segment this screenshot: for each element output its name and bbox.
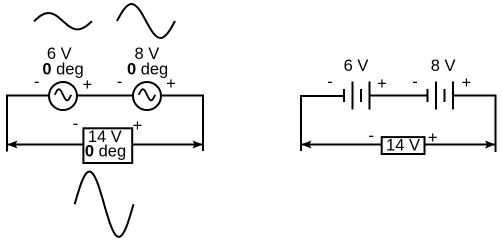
svg-text:+: + (462, 74, 472, 92)
svg-text:+: + (166, 75, 176, 93)
svg-text:-: - (412, 73, 418, 91)
svg-text:0 deg: 0 deg (85, 143, 126, 161)
svg-text:+: + (428, 129, 438, 147)
svg-text:+: + (133, 117, 143, 135)
svg-text:0 deg: 0 deg (127, 60, 168, 78)
svg-text:8 V: 8 V (431, 57, 456, 75)
svg-text:+: + (377, 75, 387, 93)
svg-text:+: + (82, 76, 92, 94)
svg-text:-: - (34, 73, 40, 91)
svg-text:-: - (369, 127, 375, 145)
svg-text:14 V: 14 V (386, 137, 420, 155)
svg-text:-: - (73, 115, 79, 133)
svg-text:-: - (327, 73, 333, 91)
svg-text:6 V: 6 V (344, 57, 369, 75)
svg-text:-: - (117, 73, 123, 91)
svg-text:0 deg: 0 deg (42, 60, 83, 78)
